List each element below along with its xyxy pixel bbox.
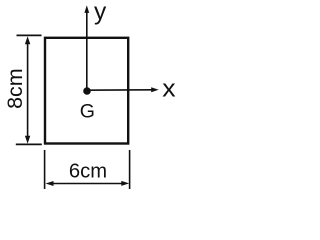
centroid dot G [83,87,91,95]
x-axis wire [87,89,152,91]
dim 8cm extension tick bottom [16,143,42,145]
svg-text:x: x [162,75,176,102]
svg-text:y: y [94,0,107,26]
dim 6cm extension line left [44,150,46,189]
dim 6cm line [51,183,123,185]
svg-text:G: G [80,101,95,123]
svg-text:6cm: 6cm [69,160,107,182]
x-axis arrowhead [151,87,159,92]
dim 8cm arrow up [25,36,30,44]
dim 6cm arrow left [46,181,54,186]
y-axis arrowhead [84,5,89,13]
rectangle plate [45,38,128,144]
dim 8cm line [27,42,29,138]
dim 6cm extension line right [129,150,131,189]
dim 8cm extension tick top [17,34,42,36]
dim 6cm arrow right [121,181,129,186]
y-axis wire [86,11,88,92]
svg-text:8cm: 8cm [3,68,27,109]
dim 8cm arrow down [25,136,30,144]
